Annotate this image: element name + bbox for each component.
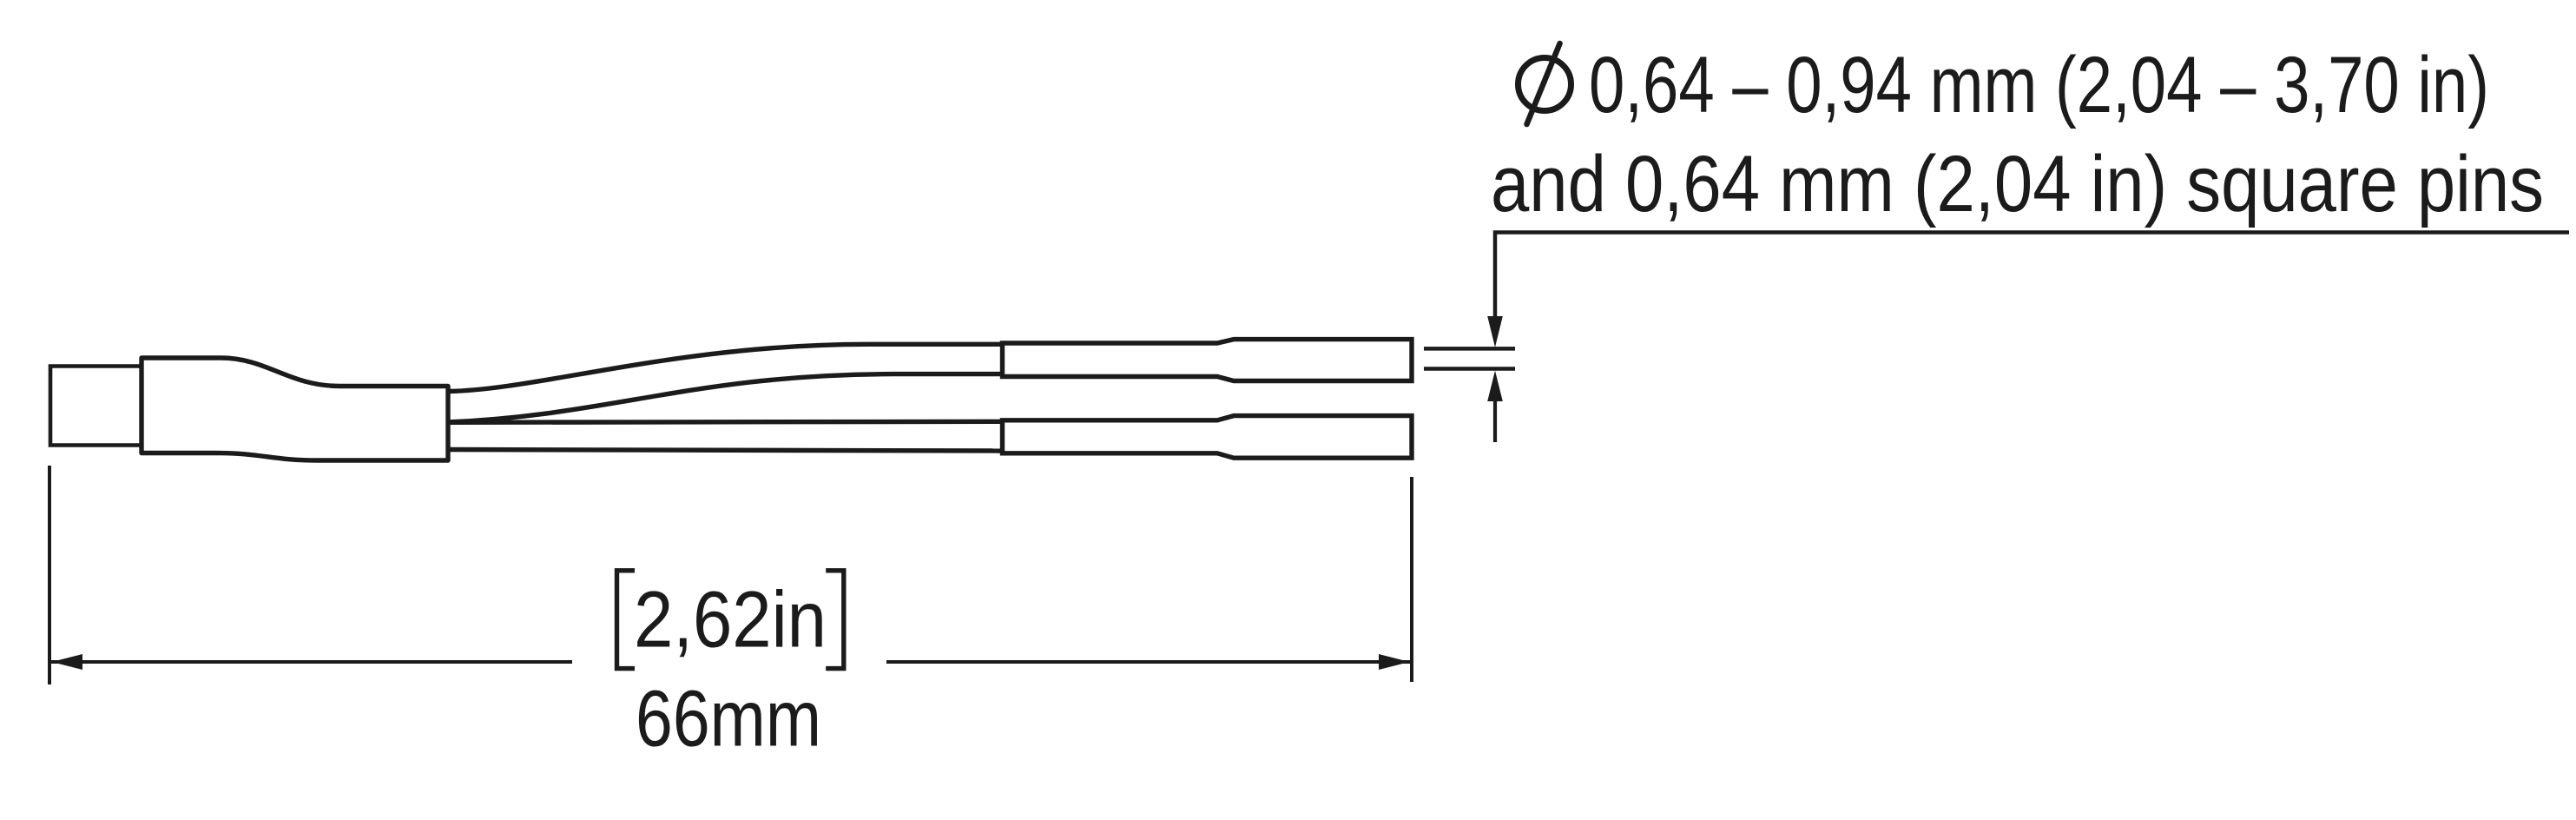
bracket left of [2,62in] bbox=[617, 571, 636, 669]
dimension right arrowhead bbox=[1379, 654, 1410, 670]
dimension line left segment bbox=[51, 660, 572, 664]
leader up arrowhead bbox=[1487, 371, 1503, 401]
upper wire top edge bbox=[448, 344, 1003, 391]
leader line under note text bbox=[1495, 233, 2569, 318]
lower terminal (crimp + square pin) bbox=[1003, 416, 1413, 459]
diameter symbol circle bbox=[1519, 58, 1571, 111]
dimension line right segment bbox=[886, 660, 1410, 664]
svg-text:and 0,64 mm (2,04 in) square p: and 0,64 mm (2,04 in) square pins bbox=[1491, 138, 2544, 228]
diameter symbol slash bbox=[1527, 43, 1560, 124]
leader down arrowhead bbox=[1487, 316, 1503, 347]
lower wire top edge bbox=[448, 421, 1003, 422]
right extension line of 66mm dimension bbox=[1410, 477, 1413, 682]
pin thickness extension line lower bbox=[1424, 367, 1515, 371]
upper wire bottom edge bbox=[448, 374, 1003, 422]
svg-text:66mm: 66mm bbox=[636, 672, 821, 763]
dimension left arrowhead bbox=[52, 654, 83, 670]
bracket right of [2,62in] bbox=[826, 571, 844, 669]
connector mating tab (small rectangle at left) bbox=[50, 367, 142, 446]
svg-text:0,64 – 0,94 mm (2,04 – 3,70 in: 0,64 – 0,94 mm (2,04 – 3,70 in) bbox=[1589, 39, 2489, 129]
left extension line of 66mm dimension bbox=[48, 466, 51, 684]
connector overmold body bbox=[142, 358, 448, 460]
svg-text:2,62in: 2,62in bbox=[634, 573, 827, 664]
lower wire bottom edge bbox=[448, 450, 1003, 452]
upper terminal (crimp + square pin) bbox=[1003, 340, 1413, 381]
pin thickness extension line upper bbox=[1424, 347, 1515, 351]
leader lower vertical line bbox=[1493, 396, 1497, 442]
